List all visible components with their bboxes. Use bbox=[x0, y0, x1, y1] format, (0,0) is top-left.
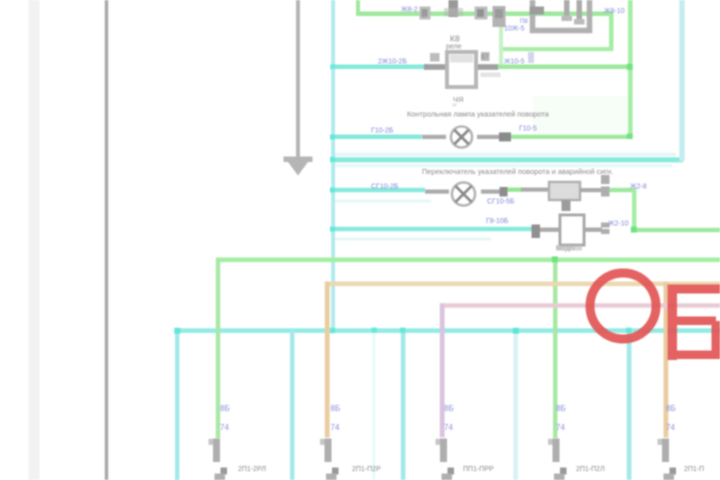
svg-text:2П1-П2Р: 2П1-П2Р bbox=[352, 466, 381, 473]
svg-text:П8: П8 bbox=[520, 19, 528, 25]
svg-text:Г10-5: Г10-5 bbox=[519, 126, 537, 133]
svg-text:74: 74 bbox=[220, 423, 229, 432]
svg-text:Г10-2Б: Г10-2Б bbox=[371, 128, 394, 135]
svg-text:2П1-2РЛ: 2П1-2РЛ bbox=[238, 466, 266, 473]
svg-text:Ж2-10: Ж2-10 bbox=[608, 221, 629, 228]
svg-text:ПП1-ПРР: ПП1-ПРР bbox=[463, 466, 494, 473]
svg-text:Ж10-5: Ж10-5 bbox=[504, 59, 525, 66]
svg-text:2П1-П: 2П1-П bbox=[684, 466, 704, 473]
svg-text:Контрольная лампа указателей: Контрольная лампа указателей поворота bbox=[407, 110, 550, 119]
svg-text:Ж2-8: Ж2-8 bbox=[630, 184, 647, 191]
svg-text:2Ж10-2Б: 2Ж10-2Б bbox=[378, 59, 407, 66]
svg-text:12: 12 bbox=[452, 102, 457, 107]
svg-text:10Ж-5: 10Ж-5 bbox=[504, 26, 525, 33]
svg-text:Ж8-2: Ж8-2 bbox=[401, 7, 418, 14]
svg-text:Ж8-10: Ж8-10 bbox=[604, 8, 625, 15]
svg-text:Г8-10Б: Г8-10Б bbox=[486, 218, 509, 225]
svg-text:Переключатель указателей пов: Переключатель указателей поворота и авар… bbox=[422, 167, 613, 176]
svg-text:8Б: 8Б bbox=[220, 404, 230, 413]
svg-text:СГ10-2Б: СГ10-2Б bbox=[371, 184, 399, 191]
svg-text:2П1-П2Л: 2П1-П2Л bbox=[576, 466, 605, 473]
svg-text:К8: К8 bbox=[450, 34, 460, 44]
svg-text:реле: реле bbox=[446, 44, 462, 51]
svg-text:87: 87 bbox=[481, 54, 489, 61]
svg-text:СГ10-5Б: СГ10-5Б bbox=[487, 199, 515, 206]
